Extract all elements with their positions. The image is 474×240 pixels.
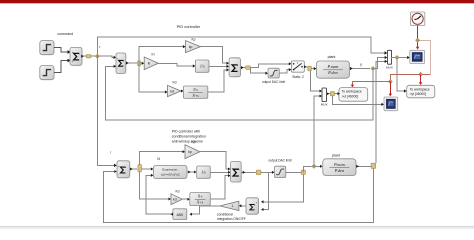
integrator block 1/s upper	[195, 60, 209, 72]
signal marker after Sum5	[256, 170, 261, 175]
node clock junction 3	[388, 80, 392, 84]
svg-text:plant: plant	[328, 55, 336, 59]
svg-text:N+s: N+s	[196, 201, 204, 205]
sum block Sum6 windup difference	[246, 198, 259, 214]
svg-text:command: command	[57, 32, 73, 36]
wire Ki to Integrator1	[158, 63, 193, 66]
expression block conditional integrator gate	[153, 165, 187, 178]
mux block Mux1	[388, 50, 392, 64]
integrator block 1/s lower	[197, 166, 211, 178]
gain Kd triangle lower	[171, 194, 182, 205]
svg-text:P.den: P.den	[334, 168, 345, 173]
step source block Step2	[40, 66, 54, 80]
wire Sum6 output left to gain 1	[241, 205, 246, 207]
svg-text:MUX: MUX	[386, 66, 393, 70]
signal marker after Sum3	[246, 66, 251, 69]
wire branch down to Sum6 input 2 presaturation	[263, 172, 268, 209]
wire derivative filter to Sum3 input 3	[208, 70, 227, 92]
wire clock left into To-workspace ut	[352, 82, 390, 86]
wire Kp2 to Sum5 input 1	[200, 152, 228, 169]
wire derivative filter lower to Sum5 input 3	[210, 176, 228, 199]
transfer function N s over N plus s lower	[190, 193, 211, 206]
wire ABS output left and up to Expression input 2	[146, 175, 173, 214]
wire Sum5 output	[241, 171, 256, 173]
step source block Step1	[40, 41, 54, 55]
wire clock left toward ut and Scope2	[390, 74, 420, 81]
wire Sum1 output to node r	[82, 55, 97, 57]
svg-text:ki: ki	[148, 62, 151, 66]
svg-text:Kd: Kd	[172, 81, 176, 85]
wire saturation lower branch down to Sum6 input 1	[263, 175, 303, 202]
wire e down to Kd gain	[139, 63, 165, 92]
svg-text:conditional: conditional	[217, 212, 233, 216]
svg-text:kp: kp	[189, 45, 193, 49]
svg-text:anti-windup scheme: anti-windup scheme	[172, 140, 203, 144]
wire Sum2 output e	[126, 62, 137, 64]
svg-text:-: -	[257, 210, 258, 214]
wire clock down into To-workspace yt	[420, 74, 422, 83]
saturation block output DAC limit upper	[268, 68, 279, 78]
wire plant1 output y	[350, 68, 371, 70]
wire r down to lower Sum4 input	[97, 56, 114, 165]
signal marker on lower e wire	[138, 165, 142, 172]
svg-text:1/s: 1/s	[200, 64, 205, 69]
svg-text:+: +	[72, 50, 74, 54]
svg-text:kd: kd	[173, 198, 177, 202]
wire r to Sum2 input	[97, 56, 114, 57]
svg-text:>yt [46000]: >yt [46000]	[410, 92, 426, 96]
abs block ABS	[173, 209, 187, 220]
signal marker before plant1	[308, 66, 312, 71]
svg-text:+: +	[72, 60, 74, 64]
signal marker on e wire	[138, 61, 141, 66]
plant transfer function block lower P.num/P.den	[323, 159, 356, 176]
svg-text:kd: kd	[170, 89, 174, 93]
wire into plant2	[314, 165, 320, 167]
node r junction	[95, 54, 99, 58]
to workspace block yt	[407, 85, 435, 98]
svg-text:To workspace: To workspace	[342, 90, 362, 94]
wire y1 to Mux1 input 2	[373, 58, 385, 69]
svg-text:kp: kp	[188, 150, 192, 154]
wire Expression to Integrator2	[187, 171, 194, 173]
svg-text:output DAC limit: output DAC limit	[268, 159, 291, 163]
svg-text:ABS: ABS	[176, 213, 183, 217]
svg-text:output DAC limit: output DAC limit	[262, 80, 285, 84]
wire Sum4 output	[130, 168, 137, 170]
sum block Sum2 error	[116, 53, 126, 74]
svg-text:-: -	[117, 66, 118, 70]
svg-text:Kp: Kp	[191, 38, 195, 42]
svg-text:y: y	[360, 62, 362, 66]
mux block Mux2	[322, 88, 327, 102]
wire y2 feedback down and left to Sum4 minus	[104, 168, 374, 222]
svg-text:PID controller: PID controller	[177, 24, 201, 29]
wire plant2 output y2	[356, 165, 371, 167]
wire y2 up to Mux1 input 3	[376, 61, 385, 163]
sum block Sum3 PID combine	[229, 58, 240, 77]
svg-text:Ki: Ki	[157, 157, 160, 161]
svg-text:1/s: 1/s	[201, 170, 206, 175]
svg-text:N·s: N·s	[192, 88, 198, 92]
sum block Sum1 command	[70, 48, 82, 66]
wire r up to Mux1 input 1	[97, 37, 385, 56]
wire Kp to Sum3 input 1	[201, 47, 227, 64]
gain 1 triangle conditional integration	[220, 201, 239, 210]
signal marker on r wire	[86, 55, 91, 58]
wire Mux1 signal down to To-workspace yt	[397, 58, 404, 92]
transfer function N s over N plus s upper	[183, 86, 207, 98]
svg-text:>ut [46000]: >ut [46000]	[342, 94, 359, 98]
wire Integrator1 to Sum3	[209, 65, 227, 67]
svg-text:P.den: P.den	[327, 70, 338, 75]
svg-text:Static: 2: Static: 2	[292, 75, 304, 79]
sum block Sum4 lower error	[117, 161, 130, 178]
signal marker after plant2	[371, 163, 376, 168]
saturation block output DAC limit lower	[274, 166, 285, 177]
wire u1 down to Mux2 input 1	[311, 71, 320, 91]
page header red bar	[0, 0, 474, 3]
wire clock loop right and down to yt	[418, 40, 431, 74]
svg-text:N+s: N+s	[191, 94, 199, 98]
svg-text:N·s: N·s	[197, 195, 203, 199]
node u2 junction	[312, 164, 316, 168]
wire Saturation lower output	[286, 171, 304, 173]
node clock junction 1	[416, 38, 420, 42]
svg-text:Kd: Kd	[175, 189, 179, 193]
wire Saturation to Switch input 2	[279, 70, 289, 74]
node after Mux1 junction	[395, 56, 399, 60]
svg-text:MUX: MUX	[321, 103, 328, 107]
gain Kp triangle lower	[185, 145, 200, 159]
wire Sum3 output	[241, 67, 246, 69]
to workspace block ut	[339, 88, 368, 102]
wire y1 feedback down and left to Sum2 minus	[106, 66, 374, 120]
wire down to Saturation upper	[250, 68, 265, 74]
node y1 junction	[371, 67, 375, 71]
wire Mux2 output to ut workspace	[327, 93, 338, 95]
wire Switch output to plant	[304, 67, 314, 69]
signal marker after Mux2	[330, 92, 334, 96]
svg-text:(u2>=0)*u1*u2: (u2>=0)*u1*u2	[161, 172, 180, 176]
wire lower e down to Kd2	[140, 172, 169, 199]
sum block Sum5 lower PID combine	[231, 162, 242, 183]
wire e up to Kp gain	[139, 47, 183, 63]
scope block Scope2	[384, 97, 398, 111]
wire Mux2 branch down to Scope2	[332, 96, 381, 105]
wire gain 1 to ABS	[192, 206, 220, 214]
svg-text:P.num: P.num	[333, 162, 345, 167]
svg-text:To workspace: To workspace	[410, 87, 430, 91]
svg-text:Expression:: Expression:	[162, 168, 178, 172]
node clock junction 2	[419, 72, 423, 76]
plant transfer function block upper P.num/P.den	[316, 61, 349, 78]
wire Step2 to Sum1	[54, 61, 68, 73]
wire Kd to derivative filter	[181, 90, 183, 92]
svg-text:PID controller with: PID controller with	[172, 130, 200, 134]
svg-text:P.num: P.num	[327, 64, 339, 69]
wire e to Ki gain	[141, 62, 143, 64]
scope block Scope1	[410, 50, 425, 63]
wire Integrator2 to Sum5 input 2	[210, 171, 228, 173]
gain Kp triangle upper	[186, 41, 201, 53]
svg-text:integration ON/OFF: integration ON/OFF	[217, 217, 246, 221]
wire Step1 to Sum1	[54, 48, 68, 52]
wire clock output red down	[417, 26, 419, 48]
wire lower e to Expression input 1	[142, 168, 152, 170]
wire to Saturation lower	[261, 171, 272, 173]
wire to Switch input 1 direct path	[251, 64, 290, 68]
svg-text:1: 1	[231, 204, 233, 208]
gain Kd triangle upper	[168, 85, 182, 96]
svg-text:conditional integration: conditional integration	[172, 135, 206, 139]
page footer strip	[0, 227, 474, 229]
svg-text:plant: plant	[332, 154, 340, 158]
wire up to plant2 input	[303, 166, 311, 172]
wire Kd2 to derivative filter lower	[182, 198, 187, 200]
switch block Manual Switch	[291, 61, 304, 72]
signal marker after Saturation lower	[301, 170, 305, 174]
clock block Clock	[411, 12, 425, 26]
svg-text:Ki: Ki	[152, 52, 155, 56]
gain Ki triangle	[144, 57, 158, 70]
wire Mux1 output to Scope1	[392, 57, 408, 59]
wire u2 up to Mux2 input 2	[314, 96, 320, 166]
svg-text:Kp: Kp	[191, 140, 195, 144]
wire clock down into Scope2	[389, 82, 391, 94]
wire lower e up to Kp2	[140, 152, 183, 165]
svg-text:-: -	[118, 172, 119, 176]
